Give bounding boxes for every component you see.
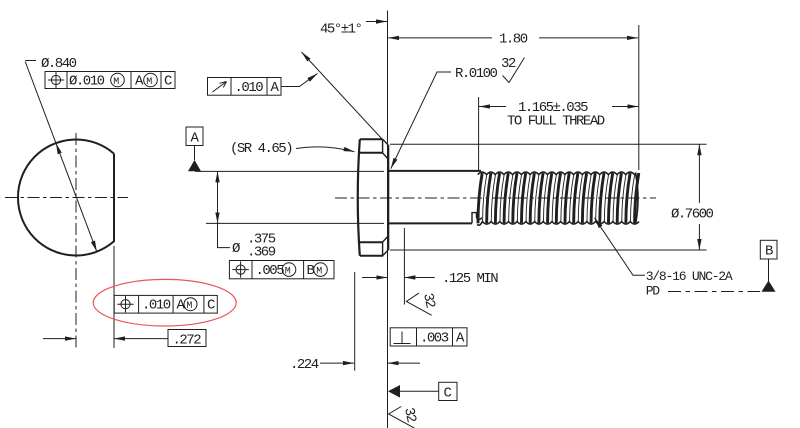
PD dashed line <box>668 291 760 293</box>
svg-text:32: 32 <box>419 292 438 310</box>
svg-text:M: M <box>316 267 322 278</box>
thread flank lines thick <box>478 173 639 223</box>
diameter leader line Ø.840 <box>25 62 97 252</box>
svg-text:R.0100: R.0100 <box>455 66 498 82</box>
leader to limits text <box>218 223 231 247</box>
FCF1 M circle 2 <box>144 73 158 87</box>
chamfer angle reference diagonal <box>302 52 383 139</box>
svg-text:A: A <box>456 331 465 347</box>
dimension 1.80 <box>388 37 492 39</box>
bolt head inner verticals <box>382 139 384 256</box>
svg-text:C: C <box>444 386 452 402</box>
svg-text:45°±1°: 45°±1° <box>320 22 362 38</box>
shank top edge <box>389 170 481 172</box>
extension line fillet end <box>403 228 405 305</box>
vertical centerline of end view <box>75 133 77 348</box>
datum A triangle <box>188 160 201 171</box>
dimension .125 MIN <box>362 277 387 279</box>
svg-text:.369: .369 <box>247 245 276 261</box>
datum A stem <box>194 146 196 161</box>
svg-text:.224: .224 <box>290 357 319 373</box>
position symbol FCF3 <box>236 265 245 274</box>
datum C flag box <box>439 382 457 400</box>
bolt head chamfer diagonals <box>383 139 389 255</box>
datum A flag box <box>186 127 203 146</box>
arrowhead lower <box>91 241 97 252</box>
dimension .272 basic box <box>168 330 206 347</box>
svg-text:32: 32 <box>501 56 516 72</box>
feature control frame FCF2 box <box>114 295 217 313</box>
position symbol FCF2 <box>121 300 130 309</box>
thread crest outline top <box>478 172 635 175</box>
svg-text:.125 MIN: .125 MIN <box>442 271 498 287</box>
svg-text:1.80: 1.80 <box>499 32 528 48</box>
thread crest outline bottom <box>477 222 639 226</box>
bolt head crown arc <box>358 139 360 256</box>
datum C triangle <box>388 385 400 398</box>
FCF3 M circle 2 <box>314 263 328 277</box>
bolt head bottom edge <box>360 255 383 257</box>
svg-text:Ø.010: Ø.010 <box>69 74 105 90</box>
svg-text:M: M <box>285 267 291 278</box>
svg-text:32: 32 <box>400 406 419 424</box>
angle leader arrow <box>366 21 387 23</box>
svg-text:Ø: Ø <box>232 241 240 257</box>
extension line from flat <box>113 246 115 348</box>
svg-text:.005: .005 <box>256 263 285 279</box>
thread end cap <box>636 173 638 225</box>
FCF2 M circle <box>184 298 197 311</box>
runout symbol arrow <box>213 82 227 93</box>
svg-text:.272: .272 <box>173 333 202 349</box>
thread flank lines thin <box>483 175 635 222</box>
svg-text:A: A <box>191 131 200 147</box>
position symbol FCF1 <box>51 75 60 84</box>
svg-text:B: B <box>307 263 315 279</box>
extension line head crown <box>354 272 356 371</box>
radius note R.0100 leader <box>391 72 451 169</box>
extension line hex flat top <box>390 143 707 145</box>
datum C extension line (head bearing face) <box>387 11 389 428</box>
perpendicularity symbol <box>394 332 411 344</box>
svg-text:M: M <box>186 301 192 312</box>
svg-text:Ø.7600: Ø.7600 <box>671 207 714 223</box>
datum B triangle <box>762 281 776 292</box>
svg-text:TO FULL THREAD: TO FULL THREAD <box>507 114 605 130</box>
red revision ellipse <box>93 279 236 326</box>
extension line at thread end <box>638 25 640 170</box>
datum B stem <box>768 259 770 281</box>
FCF3 M circle 1 <box>282 263 296 277</box>
datum C leader <box>400 390 439 392</box>
svg-text:.010: .010 <box>142 298 171 314</box>
runout FCF box <box>208 78 282 96</box>
bolt head facet line upper <box>360 152 383 154</box>
svg-text:C: C <box>207 298 215 314</box>
bolt head top edge <box>360 138 383 140</box>
svg-text:(SR 4.65): (SR 4.65) <box>230 141 292 157</box>
dimension 1.165 <box>479 106 506 108</box>
svg-text:3/8-16 UNC-2A: 3/8-16 UNC-2A <box>646 269 733 284</box>
svg-text:M: M <box>146 77 152 88</box>
SR leader <box>296 147 355 152</box>
extension line full thread <box>478 97 480 170</box>
svg-text:Ø.840: Ø.840 <box>41 56 77 72</box>
dimension .272 left arrow <box>43 338 76 340</box>
svg-text:M: M <box>113 77 119 88</box>
dimension .272 right arrow <box>114 338 168 340</box>
bolt head facet line lower <box>360 241 383 243</box>
horizontal centerline of end view <box>5 197 128 199</box>
svg-text:.010: .010 <box>235 80 264 96</box>
dimension shank diameter arrows <box>217 171 219 223</box>
svg-text:.003: .003 <box>420 331 449 347</box>
svg-text:C: C <box>164 74 172 90</box>
extension line shank top <box>195 170 384 172</box>
svg-text:A: A <box>271 80 280 96</box>
extension line shank bottom <box>206 222 384 224</box>
bolt head right face <box>387 145 389 250</box>
FCF3 box <box>229 261 334 279</box>
thread note leader <box>595 218 646 275</box>
dimension hex width vertical <box>698 144 700 203</box>
thread runout notch <box>472 213 482 224</box>
surface finish symbol near R.0100 <box>503 58 525 83</box>
svg-text:PD: PD <box>646 284 661 299</box>
surface finish symbol mid <box>406 293 431 315</box>
datum B flag box <box>760 240 777 259</box>
svg-text:A: A <box>135 74 144 90</box>
extension line hex flat bottom <box>390 249 707 251</box>
runout FCF leader <box>281 74 318 87</box>
svg-text:B: B <box>765 244 773 260</box>
shank bottom edge <box>389 222 472 224</box>
bolt centerline <box>335 197 656 199</box>
FCF1 M circle 1 <box>111 73 125 87</box>
surface finish symbol bottom <box>389 407 416 428</box>
arrowhead upper <box>56 143 62 154</box>
perpendicularity FCF box <box>390 328 467 346</box>
head end view circle <box>18 140 114 256</box>
feature control frame FCF1 box <box>45 72 175 89</box>
